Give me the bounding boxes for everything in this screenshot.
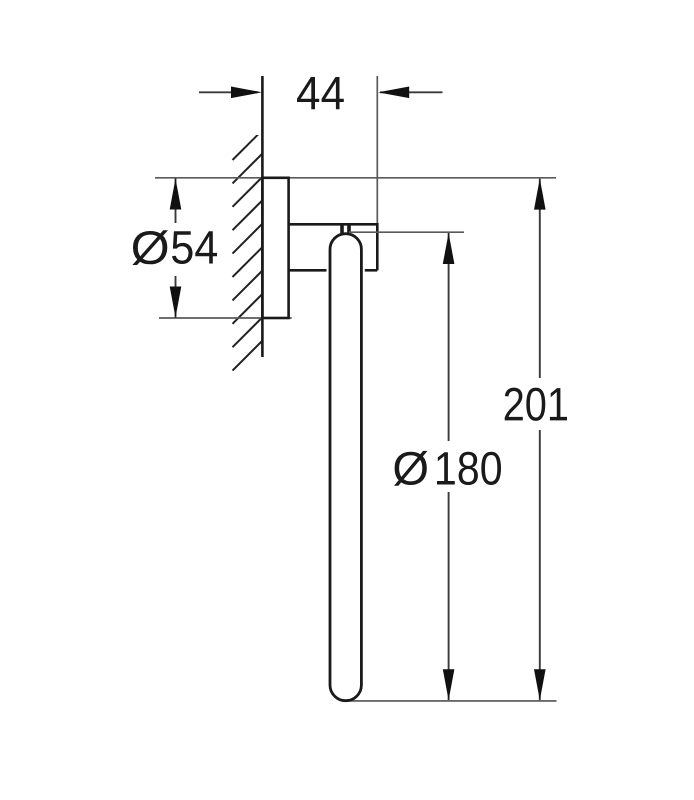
extension line bottom (shared by dim 180 and dim 201) (350, 700, 557, 702)
arrow 54 pointing down (170, 287, 182, 318)
dim line 201 vertical lower segment (539, 430, 541, 700)
arrow 44 pointing right at wall (231, 87, 262, 99)
arrow 54 pointing up (170, 179, 182, 210)
mounting arm bottom edge left part (288, 269, 327, 272)
dim line 180 vertical lower segment (448, 492, 450, 700)
dim line 44 right shaft (380, 91, 443, 93)
arrow 201 pointing down (534, 669, 546, 700)
dim line 54 vertical upper segment (175, 178, 177, 223)
dim line 44 left shaft (199, 91, 258, 93)
dim line 54 vertical lower segment (175, 276, 177, 318)
wall plate (side view) (262, 178, 288, 318)
dim text 44 (297, 77, 344, 109)
wall hatching (233, 129, 265, 371)
wall line (261, 76, 264, 357)
mounting arm bottom edge right part (365, 269, 378, 272)
ring hanger pin right stub (347, 225, 351, 234)
extension line right (dim 44) (376, 76, 378, 224)
extension line top of ring (dim 180) (349, 231, 464, 233)
mounting arm right edge (376, 223, 379, 270)
dim text 54 digits (172, 231, 217, 264)
arrow 201 pointing up (534, 179, 546, 210)
dim text diameter symbol 54 (132, 230, 168, 265)
dim line 180 vertical upper segment (448, 233, 450, 441)
arrow 180 pointing up (443, 233, 455, 264)
extension line bottom of wall plate (dim 54) (159, 317, 292, 319)
extension line top (shared by dim 54 and dim 201) (155, 177, 556, 179)
dim line 201 vertical upper segment (539, 179, 541, 378)
mounting arm top edge (288, 223, 377, 226)
dim text 201 (505, 388, 567, 421)
arrow 180 pointing down (443, 669, 455, 700)
dim text diameter symbol 180 (394, 451, 428, 486)
dim text 180 digits (437, 452, 501, 485)
ring hanger pin left stub (340, 225, 344, 234)
arrow 44 pointing left at ring edge (378, 87, 409, 99)
towel ring (side view capsule) (330, 234, 361, 701)
